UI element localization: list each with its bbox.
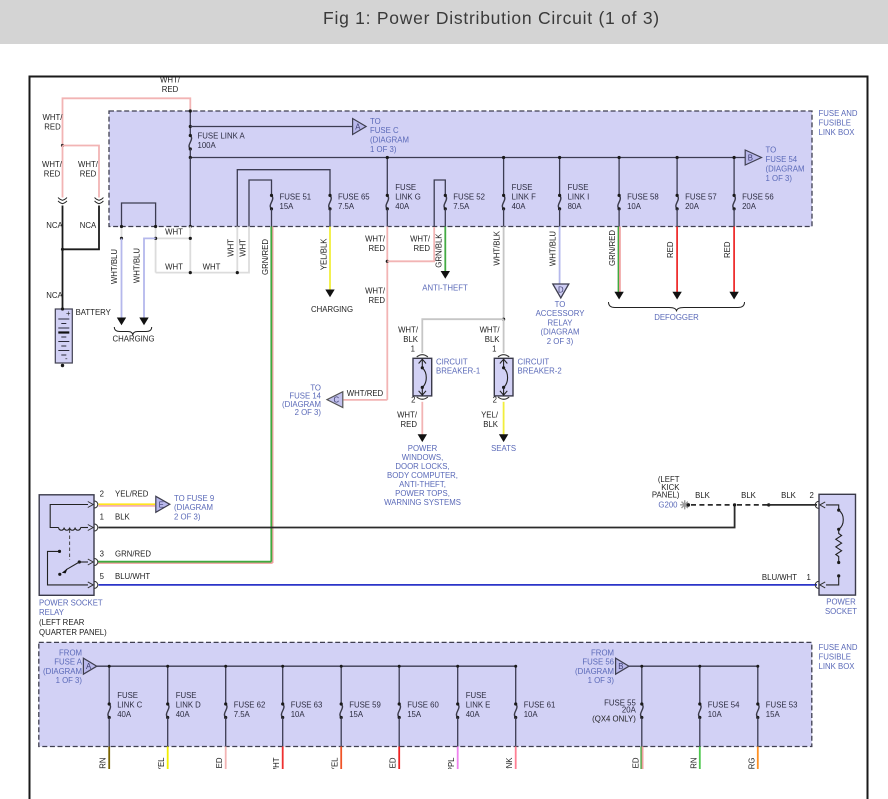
wire stub PPL (fuse link E) bbox=[457, 747, 459, 770]
svg-text:(DIAGRAM: (DIAGRAM bbox=[766, 165, 805, 174]
svg-text:1: 1 bbox=[807, 573, 811, 582]
svg-text:FUSE 54: FUSE 54 bbox=[708, 701, 740, 710]
wire YEL/RED relay pin 2 to connector E bbox=[99, 503, 156, 505]
label WHT/BLK (above CB-1) bbox=[398, 326, 419, 345]
svg-text:40A: 40A bbox=[395, 202, 410, 211]
svg-text:LINK I: LINK I bbox=[568, 193, 590, 202]
arrow to power windows loads bbox=[418, 434, 427, 442]
label: TO FUSE 54 (DIAGRAM 1 OF 3) bbox=[766, 146, 805, 184]
fuse 62 7.5A bbox=[224, 702, 227, 719]
svg-text:15A: 15A bbox=[766, 710, 781, 719]
svg-text:(DIAGRAM: (DIAGRAM bbox=[370, 136, 409, 145]
fuse and fusible link box (top) bbox=[109, 111, 812, 227]
svg-text:ANTI-THEFT: ANTI-THEFT bbox=[422, 284, 468, 293]
svg-text:A: A bbox=[86, 662, 92, 671]
wire NCA black right merging left bbox=[63, 206, 100, 250]
svg-text:FUSE AND: FUSE AND bbox=[819, 109, 858, 118]
socket internal resistor bbox=[836, 529, 842, 561]
wire: fuse 51/65 inner outputs to box bottom bbox=[272, 209, 735, 227]
svg-text:1 OF 3): 1 OF 3) bbox=[370, 145, 397, 154]
brace under charging arrows bbox=[114, 327, 151, 336]
svg-text:TO FUSE 9: TO FUSE 9 bbox=[174, 494, 214, 503]
fuse link D 40A bbox=[166, 702, 169, 719]
staple feed for fuse 52 (from WHT/RED below) bbox=[434, 180, 445, 227]
wire stub RED (fuse 60) bbox=[398, 747, 400, 770]
wire YEL/BLK from CB-2 bbox=[503, 402, 505, 435]
svg-text:FUSE 56: FUSE 56 bbox=[742, 193, 774, 202]
svg-text:SOCKET: SOCKET bbox=[825, 607, 857, 616]
svg-text:15A: 15A bbox=[280, 202, 295, 211]
svg-text:+: + bbox=[66, 309, 71, 318]
relay coil bbox=[59, 528, 81, 531]
wire: bus drop to fuse link I bbox=[559, 158, 561, 196]
svg-text:FUSIBLE: FUSIBLE bbox=[819, 119, 852, 128]
svg-text:WHT/: WHT/ bbox=[365, 287, 386, 296]
sub-bus feeding FUSE 65 bbox=[237, 170, 330, 227]
node: BLK junction dot (to relay) bbox=[733, 503, 736, 506]
svg-text:FUSE A: FUSE A bbox=[54, 658, 83, 667]
relay internal: coil branch from pin 2 bbox=[50, 505, 88, 528]
wire WHT/BLU charging left bbox=[121, 238, 123, 317]
bottom bus B bbox=[629, 665, 758, 667]
svg-text:CIRCUIT: CIRCUIT bbox=[436, 358, 468, 367]
svg-text:FROM: FROM bbox=[59, 648, 82, 657]
svg-text:LINK G: LINK G bbox=[395, 193, 421, 202]
label CIRCUIT BREAKER-1 bbox=[436, 358, 480, 376]
svg-text:RED: RED bbox=[414, 244, 431, 253]
svg-text:RED: RED bbox=[401, 420, 418, 429]
wire: fuse link A feed from box top bbox=[189, 111, 191, 136]
label YEL/BLK (CB-2 out) bbox=[481, 411, 499, 430]
svg-text:DEFOGGER: DEFOGGER bbox=[654, 313, 699, 322]
svg-text:RED: RED bbox=[80, 170, 97, 179]
node: WHT/BLK junction dot bbox=[502, 318, 505, 321]
svg-text:15A: 15A bbox=[407, 710, 422, 719]
wire WHT/RED left branch down bbox=[62, 146, 64, 198]
label BLU/WHT 1 (power socket) bbox=[762, 573, 811, 582]
wire BLK dashed ground segment 2 bbox=[737, 504, 769, 506]
svg-text:FUSE 65: FUSE 65 bbox=[338, 193, 370, 202]
label CIRCUIT BREAKER-2 bbox=[518, 358, 562, 376]
circuit breaker 1 bbox=[413, 355, 432, 400]
wire stub ORG (fuse 53) bbox=[757, 747, 759, 770]
label WHT/RED (left branch) bbox=[42, 160, 63, 179]
fuse 61 10A bbox=[514, 702, 517, 719]
svg-text:3: 3 bbox=[100, 550, 104, 559]
svg-text:FUSE LINK A: FUSE LINK A bbox=[198, 132, 246, 141]
svg-text:WINDOWS,: WINDOWS, bbox=[402, 453, 444, 462]
svg-text:B: B bbox=[748, 154, 753, 163]
svg-text:FUSE 63: FUSE 63 bbox=[291, 701, 323, 710]
svg-text:80A: 80A bbox=[568, 202, 583, 211]
svg-text:10A: 10A bbox=[627, 202, 642, 211]
brace under defogger arrows bbox=[609, 302, 745, 312]
svg-text:15A: 15A bbox=[349, 710, 364, 719]
svg-text:LINK BOX: LINK BOX bbox=[819, 662, 856, 671]
svg-text:WHT/: WHT/ bbox=[397, 411, 418, 420]
inline connector (right) bbox=[95, 198, 104, 204]
fuse link F 40A bbox=[502, 194, 505, 211]
wire WHT/BLK from fuse link F bbox=[503, 227, 505, 320]
svg-text:BREAKER-1: BREAKER-1 bbox=[436, 367, 480, 376]
svg-text:RED: RED bbox=[723, 241, 732, 258]
pin 1 number and BLK label bbox=[100, 513, 131, 522]
node: ground dot bbox=[687, 503, 691, 507]
svg-text:1: 1 bbox=[411, 345, 415, 354]
fuse 63 10A bbox=[281, 702, 284, 719]
svg-text:WHT/: WHT/ bbox=[480, 326, 501, 335]
wire WHT/BLK down to circuit breaker 2 bbox=[503, 319, 505, 353]
svg-text:WHT/: WHT/ bbox=[160, 76, 181, 85]
label: FROM FUSE A (DIAGRAM 1 OF 3) bbox=[43, 648, 83, 685]
fuse 65 7.5A bbox=[328, 194, 331, 211]
wire YEL/BLK from fuse 65 to charging bbox=[329, 227, 331, 291]
wire WHT/BLK branch to circuit breaker 1 bbox=[422, 319, 503, 353]
wire: bus down through box bottom bbox=[189, 158, 191, 227]
svg-text:10A: 10A bbox=[524, 710, 539, 719]
svg-text:TO: TO bbox=[555, 300, 566, 309]
svg-text:GRN/RED: GRN/RED bbox=[115, 550, 151, 559]
svg-text:RELAY: RELAY bbox=[39, 608, 65, 617]
node: junction dot NCA merge bbox=[61, 248, 64, 251]
node: junction dot WHT/RED split bbox=[61, 144, 64, 147]
label WHT/RED (right of junction) bbox=[410, 235, 431, 254]
socket internal arc bbox=[839, 510, 844, 529]
svg-text:RED: RED bbox=[162, 85, 179, 94]
inline connector (left) bbox=[58, 198, 67, 204]
svg-text:QUARTER PANEL): QUARTER PANEL) bbox=[39, 628, 107, 637]
connector triangle D (TO ACCESSORY RELAY) bbox=[553, 284, 569, 298]
svg-text:40A: 40A bbox=[117, 710, 132, 719]
svg-text:BLK: BLK bbox=[485, 335, 501, 344]
svg-text:FUSE 51: FUSE 51 bbox=[280, 193, 312, 202]
svg-text:WHT/: WHT/ bbox=[410, 235, 431, 244]
svg-text:YEL/RED: YEL/RED bbox=[115, 490, 149, 499]
label WHT/RED (left of junction) bbox=[365, 235, 386, 254]
svg-text:LINK F: LINK F bbox=[512, 193, 536, 202]
svg-text:FROM: FROM bbox=[591, 648, 614, 657]
svg-text:WHT/RED: WHT/RED bbox=[347, 389, 384, 398]
svg-text:TO: TO bbox=[370, 117, 381, 126]
fuse 59 15A bbox=[340, 702, 343, 719]
svg-text:FUSE 58: FUSE 58 bbox=[627, 193, 659, 202]
svg-text:20A: 20A bbox=[685, 202, 700, 211]
wire: fuse link A to bus bbox=[189, 149, 191, 158]
svg-text:(DIAGRAM: (DIAGRAM bbox=[575, 667, 614, 676]
svg-text:RED: RED bbox=[44, 123, 61, 132]
wire WHT feeds up to fuse 65 sub-bus bbox=[236, 227, 238, 273]
svg-text:ANTI-THEFT,: ANTI-THEFT, bbox=[399, 480, 446, 489]
svg-text:FUSE: FUSE bbox=[117, 691, 138, 700]
power socket relay box bbox=[39, 495, 94, 596]
svg-text:WHT/: WHT/ bbox=[78, 160, 99, 169]
wire RED from fuse 57 bbox=[676, 227, 678, 293]
bus B drops to fuses bbox=[642, 666, 758, 704]
wire WHT horizontal lower bbox=[156, 272, 238, 274]
svg-text:WHT/BLU: WHT/BLU bbox=[549, 231, 558, 266]
relay pin 2 socket bbox=[88, 501, 98, 508]
svg-text:ACCESSORY: ACCESSORY bbox=[536, 309, 586, 318]
svg-text:RELAY: RELAY bbox=[548, 318, 574, 327]
svg-text:(LEFT REAR: (LEFT REAR bbox=[39, 618, 85, 627]
svg-text:BLU/WHT: BLU/WHT bbox=[762, 573, 797, 582]
wire GRN/RED from fuse 51 down to relay pin 3 bbox=[98, 227, 273, 564]
svg-text:D: D bbox=[558, 286, 564, 295]
svg-text:G200: G200 bbox=[658, 501, 678, 510]
fuse link A 100A bbox=[189, 134, 192, 151]
svg-text:NCA: NCA bbox=[46, 221, 63, 230]
svg-text:FUSE 53: FUSE 53 bbox=[766, 701, 798, 710]
bus junction dots bbox=[108, 665, 760, 668]
wire WHT/RED branch to fuse 52 staple bbox=[387, 227, 434, 261]
svg-text:C: C bbox=[334, 396, 340, 405]
wire NCA black left down to battery bbox=[62, 206, 64, 310]
arrow defogger 2 bbox=[672, 292, 681, 300]
pin 3 number and GRN/RED label bbox=[100, 550, 152, 559]
wire WHT/BLU from fuse link I bbox=[559, 227, 561, 285]
label WHT/RED (right branch) bbox=[78, 160, 99, 179]
wire WHT horizontal upper (to charging columns) bbox=[156, 237, 191, 239]
svg-text:GRN/BLK: GRN/BLK bbox=[434, 233, 443, 268]
label (LEFT KICK PANEL) bbox=[652, 475, 680, 500]
label WHT/RED (CB-1 out) bbox=[397, 411, 418, 430]
fuse 54 10A bbox=[698, 702, 701, 719]
svg-text:GRN/RED: GRN/RED bbox=[261, 239, 270, 275]
fuse link E 40A bbox=[456, 702, 459, 719]
svg-text:(DIAGRAM: (DIAGRAM bbox=[43, 667, 82, 676]
svg-text:GRN/RED: GRN/RED bbox=[608, 230, 617, 266]
label: TO FUSE C (DIAGRAM 1 OF 3) bbox=[370, 117, 409, 154]
svg-text:100A: 100A bbox=[198, 141, 217, 150]
fuse 52 7.5A bbox=[444, 194, 447, 211]
svg-text:10A: 10A bbox=[708, 710, 723, 719]
wire WHT feed up to fuse 51 sub-bus (jog) bbox=[237, 227, 249, 273]
wire BLK dashed ground segment 1 bbox=[691, 504, 735, 506]
node: dot at box top entry bbox=[189, 109, 192, 112]
svg-text:RED: RED bbox=[369, 244, 386, 253]
svg-text:POWER TOPS,: POWER TOPS, bbox=[395, 489, 450, 498]
wire: bus drop to fuse 57 bbox=[676, 158, 678, 196]
svg-text:7.5A: 7.5A bbox=[453, 202, 470, 211]
relay pin 5 socket bbox=[88, 581, 98, 588]
svg-text:WHT/: WHT/ bbox=[43, 113, 64, 122]
svg-text:BLK: BLK bbox=[695, 491, 711, 500]
fuse link I 80A bbox=[558, 194, 561, 211]
svg-text:POWER: POWER bbox=[826, 598, 856, 607]
ground symbol G200 bbox=[680, 500, 689, 509]
relay pin 1 socket bbox=[88, 524, 98, 531]
svg-text:CHARGING: CHARGING bbox=[112, 335, 154, 344]
svg-text:2 OF 3): 2 OF 3) bbox=[547, 337, 574, 346]
relay switch contact to pin 3 bbox=[79, 561, 88, 563]
connector triangle B (FROM FUSE 56) bbox=[616, 658, 629, 674]
svg-text:FUSE 62: FUSE 62 bbox=[234, 701, 266, 710]
svg-text:(DIAGRAM: (DIAGRAM bbox=[541, 328, 580, 337]
wire stub BRN (fuse link C) bbox=[108, 747, 110, 770]
svg-text:YEL/: YEL/ bbox=[481, 411, 499, 420]
wire BLK solid to power socket pin 2 bbox=[769, 504, 817, 506]
labels BLK BLK BLK 2 bbox=[695, 491, 814, 500]
svg-text:FUSIBLE: FUSIBLE bbox=[819, 653, 852, 662]
svg-text:WHT: WHT bbox=[203, 263, 221, 272]
svg-text:DOOR LOCKS,: DOOR LOCKS, bbox=[395, 462, 449, 471]
svg-text:WHT/: WHT/ bbox=[398, 326, 419, 335]
relay switch common to pin 5 bbox=[48, 551, 89, 585]
connector triangle E (TO FUSE 9) bbox=[156, 496, 170, 512]
svg-text:10A: 10A bbox=[291, 710, 306, 719]
label: TO ACCESSORY RELAY (DIAGRAM 2 OF 3) bbox=[536, 300, 586, 346]
arrow to seats bbox=[499, 434, 508, 442]
svg-text:BLK: BLK bbox=[741, 491, 757, 500]
wire WHT/RED to connector C bbox=[344, 399, 388, 401]
svg-text:PANEL): PANEL) bbox=[652, 491, 680, 500]
fuse and fusible link box (bottom) bbox=[39, 642, 812, 746]
svg-text:BREAKER-2: BREAKER-2 bbox=[518, 367, 562, 376]
wire WHT/RED from fuse link G down bbox=[386, 227, 388, 400]
svg-text:FUSE 61: FUSE 61 bbox=[524, 701, 556, 710]
bus A drops to fuses bbox=[109, 666, 516, 704]
svg-text:WHT/BLU: WHT/BLU bbox=[133, 248, 142, 283]
wire BLU/WHT relay pin 5 to power socket pin 1 bbox=[99, 584, 818, 586]
pin 5 number and BLU/WHT label bbox=[100, 572, 151, 581]
label: FUSE AND FUSIBLE LINK BOX (bottom right) bbox=[819, 643, 858, 671]
power socket box bbox=[819, 494, 856, 595]
svg-text:FUSE 54: FUSE 54 bbox=[766, 155, 798, 164]
svg-text:WARNING SYSTEMS: WARNING SYSTEMS bbox=[384, 498, 461, 507]
node: branch dot to fuse C bbox=[189, 125, 192, 128]
wire BLK relay pin 1 to ground net bbox=[99, 505, 735, 528]
svg-text:40A: 40A bbox=[176, 710, 191, 719]
svg-text:40A: 40A bbox=[512, 202, 527, 211]
svg-text:20A: 20A bbox=[742, 202, 757, 211]
label: FROM FUSE 56 (DIAGRAM 1 OF 3) bbox=[575, 648, 614, 685]
svg-text:BLK: BLK bbox=[483, 420, 499, 429]
fuse 60 15A bbox=[398, 702, 401, 719]
socket internal: pin 1 lead bbox=[837, 574, 840, 577]
svg-text:FUSE 59: FUSE 59 bbox=[349, 701, 381, 710]
wire WHT/RED from CB-1 bbox=[421, 402, 423, 435]
svg-text:BLU/WHT: BLU/WHT bbox=[115, 572, 150, 581]
svg-text:FUSE: FUSE bbox=[512, 183, 533, 192]
wire WHT short drops from box bottom (charging columns) bbox=[122, 227, 156, 239]
svg-text:WHT: WHT bbox=[165, 263, 183, 272]
arrow defogger 1 bbox=[614, 292, 623, 300]
connector triangle A (TO FUSE C) bbox=[353, 119, 367, 135]
node: dot at box bottom (fuse link A column) bbox=[189, 225, 192, 228]
label WHT/RED (mid vertical) bbox=[365, 287, 386, 306]
wire: bus drop to fuse link F bbox=[503, 158, 505, 196]
svg-text:7.5A: 7.5A bbox=[234, 710, 251, 719]
fuse 53 15A bbox=[756, 702, 759, 719]
svg-text:1 OF 3): 1 OF 3) bbox=[766, 174, 793, 183]
fuse 57 20A bbox=[676, 194, 679, 211]
svg-text:POWER: POWER bbox=[408, 444, 438, 453]
svg-text:40A: 40A bbox=[466, 710, 481, 719]
svg-text:SEATS: SEATS bbox=[491, 444, 516, 453]
staple loop inside box (battery charging columns) bbox=[122, 203, 156, 227]
svg-text:(DIAGRAM: (DIAGRAM bbox=[174, 503, 213, 512]
wire WHT: fuse link A output below box bbox=[189, 227, 191, 273]
node: WHT/RED junction dot bbox=[386, 260, 389, 263]
wire stub PNK (fuse 61) bbox=[515, 747, 517, 770]
svg-text:B: B bbox=[618, 662, 623, 671]
svg-text:CIRCUIT: CIRCUIT bbox=[518, 358, 550, 367]
svg-text:FUSE: FUSE bbox=[395, 183, 416, 192]
label: TO FUSE 14 (DIAGRAM 2 OF 3) bbox=[282, 384, 322, 418]
svg-text:A: A bbox=[355, 123, 361, 132]
sub-bus feeding FUSE 51 bbox=[249, 180, 272, 227]
svg-text:FUSE 56: FUSE 56 bbox=[582, 658, 614, 667]
wire WHT/BLU charging right (jog) bbox=[144, 238, 156, 317]
wire to connector A (TO FUSE C) bbox=[190, 126, 352, 128]
label: TO FUSE 9 (DIAGRAM 2 OF 3) bbox=[174, 494, 214, 521]
svg-text:1: 1 bbox=[100, 513, 104, 522]
svg-text:1: 1 bbox=[492, 345, 496, 354]
label WHT/RED (top feed) bbox=[160, 76, 181, 95]
wire stub WHT/RED (fuse 62) bbox=[225, 747, 227, 770]
svg-text:LINK C: LINK C bbox=[117, 701, 142, 710]
svg-text:CHARGING: CHARGING bbox=[311, 305, 353, 314]
arrow to anti-theft bbox=[441, 271, 450, 279]
wire stub GRN (fuse 54) bbox=[699, 747, 701, 770]
svg-text:2: 2 bbox=[100, 490, 104, 499]
label: FUSE AND FUSIBLE LINK BOX (top right) bbox=[819, 109, 858, 137]
fuse link G 40A bbox=[386, 194, 389, 211]
label POWER SOCKET bbox=[825, 598, 857, 617]
svg-text:POWER SOCKET: POWER SOCKET bbox=[39, 599, 103, 608]
fuse 51 15A bbox=[270, 194, 273, 211]
node: BLK junction dot 2 bbox=[767, 503, 770, 506]
wire WHT vertical x155.6 bbox=[155, 238, 157, 272]
wire WHT/RED top feed from battery to fuse link A bbox=[63, 98, 191, 145]
svg-text:WHT: WHT bbox=[165, 228, 183, 237]
svg-text:BLK: BLK bbox=[115, 513, 131, 522]
svg-text:FUSE 60: FUSE 60 bbox=[407, 701, 439, 710]
svg-text:LINK BOX: LINK BOX bbox=[819, 128, 856, 137]
wire stub RED/YEL (fuse 59) bbox=[340, 747, 342, 770]
svg-text:E: E bbox=[159, 500, 164, 509]
bottom bus A bbox=[97, 665, 516, 667]
battery bbox=[55, 307, 72, 367]
wire: bus drop to fuse 58 bbox=[618, 158, 620, 196]
svg-text:FUSE 52: FUSE 52 bbox=[453, 193, 485, 202]
svg-text:RED: RED bbox=[369, 296, 386, 305]
svg-text:2 OF 3): 2 OF 3) bbox=[174, 512, 201, 521]
fuse outputs to box bottom bbox=[109, 718, 758, 747]
svg-text:WHT/BLU: WHT/BLU bbox=[110, 249, 119, 284]
svg-text:BODY COMPUTER,: BODY COMPUTER, bbox=[387, 471, 458, 480]
svg-text:(QX4 ONLY): (QX4 ONLY) bbox=[592, 715, 636, 724]
svg-text:FUSE: FUSE bbox=[176, 691, 197, 700]
relay pin 3 socket bbox=[88, 559, 98, 566]
svg-text:WHT/: WHT/ bbox=[42, 160, 63, 169]
svg-text:NCA: NCA bbox=[80, 221, 97, 230]
svg-text:20A: 20A bbox=[622, 706, 637, 715]
svg-text:BATTERY: BATTERY bbox=[76, 308, 112, 317]
wire RED from fuse 56 bbox=[733, 227, 735, 293]
relay coil to pin 1 bbox=[81, 527, 88, 529]
label WHT/BLK (above CB-2) bbox=[480, 326, 501, 345]
svg-text:2: 2 bbox=[493, 396, 497, 405]
svg-text:FUSE: FUSE bbox=[466, 691, 487, 700]
node: bus start dot bbox=[189, 156, 192, 159]
relay mechanical link (dashed) bbox=[69, 530, 71, 561]
wire GRN/RED from fuse 58 to defogger bbox=[618, 227, 620, 293]
connector triangle C (TO FUSE 14) bbox=[327, 392, 343, 408]
svg-text:1 OF 3): 1 OF 3) bbox=[56, 676, 83, 685]
svg-text:WHT/: WHT/ bbox=[365, 235, 386, 244]
wire: bus drop to fuse 56 bbox=[733, 158, 735, 196]
